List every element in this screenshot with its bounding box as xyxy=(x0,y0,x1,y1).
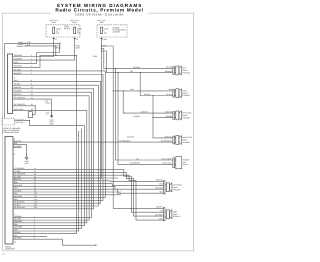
wire amp A1 to sp6 w2 xyxy=(13,170,164,213)
svg-text:1: 1 xyxy=(34,215,35,218)
svg-text:WHT: WHT xyxy=(159,217,163,220)
svg-text:C13: C13 xyxy=(34,201,37,204)
svg-text:BRN/WHT: BRN/WHT xyxy=(14,220,23,223)
svg-text:GRY/ORG: GRY/ORG xyxy=(155,187,163,190)
power distribution center (dashed box) xyxy=(97,25,127,37)
wire splice to LF speaker (-) xyxy=(102,51,173,72)
wire radio pin15 to noise capacitor xyxy=(13,106,35,115)
wire splice to LF speaker (+) xyxy=(102,49,173,69)
wire RF speaker (+) branch xyxy=(113,90,173,92)
svg-text:S204: S204 xyxy=(93,55,97,58)
title background patch xyxy=(51,11,148,16)
svg-text:LEFT: LEFT xyxy=(182,67,186,70)
svg-text:C12: C12 xyxy=(34,198,37,201)
svg-text:BLOCK: BLOCK xyxy=(64,27,71,30)
power antenna connector xyxy=(173,158,175,168)
speaker RIGHT REAR (4-wire) xyxy=(164,208,166,221)
border frame xyxy=(3,13,194,251)
svg-text:WHT: WHT xyxy=(76,47,81,50)
svg-text:7: 7 xyxy=(34,231,35,234)
svg-text:VIO/BLK: VIO/BLK xyxy=(14,231,22,234)
wire radio to amp cascade 2 xyxy=(13,75,103,201)
svg-text:15A: 15A xyxy=(104,32,108,35)
wire bus right from fuse6 xyxy=(102,46,164,208)
splice S5 xyxy=(115,68,116,69)
splice S11 xyxy=(113,90,114,91)
wire amp row3 stub xyxy=(13,146,22,148)
svg-text:LEFT REAR: LEFT REAR xyxy=(182,112,192,115)
connector tick C2 xyxy=(74,38,76,40)
wire equalizer to amp xyxy=(13,120,85,225)
svg-text:S201: S201 xyxy=(46,112,50,115)
svg-text:ai2: ai2 xyxy=(2,252,6,255)
splice S9 xyxy=(152,117,153,118)
svg-text:2: 2 xyxy=(34,218,35,221)
wire LR speaker (-) branch xyxy=(153,96,173,118)
svg-text:2: 2 xyxy=(14,77,15,80)
svg-text:WHT/VIO: WHT/VIO xyxy=(127,135,135,138)
wire radio to amp cascade 8 xyxy=(13,111,87,223)
wire amp B6 corner part xyxy=(78,130,80,132)
wire amp A7 to sp5 w3 xyxy=(13,186,164,189)
svg-text:RIGHT REAR: RIGHT REAR xyxy=(182,136,193,139)
svg-text:4: 4 xyxy=(34,223,35,226)
fuse F6 xyxy=(100,27,102,33)
svg-text:HOT AT ALL: HOT AT ALL xyxy=(49,19,58,22)
wire fuse14 to radio C1 pin1 xyxy=(13,37,54,57)
wire amp A8 to sp5 w4 xyxy=(13,189,164,193)
svg-text:DK BLU/RED: DK BLU/RED xyxy=(14,201,25,204)
wire amp B8 stub xyxy=(13,235,47,237)
amplifier box xyxy=(5,137,13,244)
svg-text:DK BLU: DK BLU xyxy=(166,93,173,96)
ground arrow G201 xyxy=(50,115,53,118)
svg-text:VIO/BRN: VIO/BRN xyxy=(133,115,141,118)
svg-text:HOT AT ALL: HOT AT ALL xyxy=(70,19,79,22)
splice on fuse6 wire xyxy=(101,45,102,46)
svg-text:C2: C2 xyxy=(76,38,78,41)
wire amp A2 to sp6 w3 xyxy=(13,172,164,216)
svg-text:C1: C1 xyxy=(55,38,57,41)
svg-text:4: 4 xyxy=(31,65,32,68)
svg-text:ORG/BLK: ORG/BLK xyxy=(14,215,23,218)
svg-text:A: A xyxy=(14,153,16,156)
splice S6 xyxy=(140,72,141,73)
wire amp A5 to sp5 w1 xyxy=(13,180,164,183)
speaker LEFT REAR (4-wire) xyxy=(164,181,166,194)
svg-text:BLK/LT BLU: BLK/LT BLU xyxy=(163,162,173,165)
svg-text:3 PREMIUM SOUND: 3 PREMIUM SOUND xyxy=(2,131,19,134)
wire amp B9 to splice xyxy=(13,239,96,245)
fuse F14 xyxy=(53,27,55,33)
svg-text:BRN/YEL: BRN/YEL xyxy=(141,110,148,113)
svg-text:BLK/WHT: BLK/WHT xyxy=(14,145,23,148)
svg-text:DK GRN/RED: DK GRN/RED xyxy=(130,162,141,165)
svg-text:1: 1 xyxy=(31,54,32,57)
svg-text:DK GRN: DK GRN xyxy=(134,66,141,69)
svg-text:AMPLIFIER: AMPLIFIER xyxy=(5,248,15,251)
svg-text:BRN/RED: BRN/RED xyxy=(165,70,173,73)
node dot A xyxy=(25,43,26,44)
wire radio to amp cascade 4 xyxy=(13,85,98,206)
svg-text:DK GRN: DK GRN xyxy=(166,66,173,69)
ground G200 xyxy=(25,156,29,158)
splice to amp ground wire xyxy=(55,55,56,56)
svg-text:DK BLU: DK BLU xyxy=(14,203,21,206)
wire amp ground row xyxy=(13,145,27,158)
svg-text:C100: C100 xyxy=(103,38,107,41)
svg-text:DK BLU: DK BLU xyxy=(144,93,151,96)
speaker RIGHT FRONT DOOR xyxy=(173,89,175,97)
wire amp A10 stub xyxy=(13,194,121,196)
wire radio to amp cascade 7 xyxy=(13,96,89,220)
svg-text:DK BLU/ORG: DK BLU/ORG xyxy=(161,157,172,160)
svg-text:C11: C11 xyxy=(34,195,37,198)
speaker RIGHT REAR DOOR xyxy=(173,136,175,144)
svg-text:RIGHT: RIGHT xyxy=(173,210,178,213)
svg-text:5: 5 xyxy=(34,226,35,229)
svg-text:LEFT REAR: LEFT REAR xyxy=(173,183,183,186)
wire fuse6 down to amp xyxy=(13,37,102,178)
svg-text:6: 6 xyxy=(34,228,35,231)
wire amp row1 to RR speaker xyxy=(13,141,173,143)
splice dot on pin15 xyxy=(35,105,36,106)
svg-text:DK BLU/ORG: DK BLU/ORG xyxy=(14,206,25,209)
connector tick C100 xyxy=(100,38,102,40)
svg-text:3: 3 xyxy=(31,61,32,64)
node dot D xyxy=(29,120,30,121)
wire amp A6 to sp5 w2 xyxy=(13,184,164,186)
wire long vertical to amp row xyxy=(13,55,77,233)
svg-text:G201: G201 xyxy=(50,119,54,122)
svg-text:BRN/YEL: BRN/YEL xyxy=(165,110,172,113)
connector C inline (dashed) xyxy=(60,42,62,50)
wire amp A4 stub xyxy=(13,177,118,179)
wire amp A9 stub xyxy=(13,191,121,193)
wire radio to amp cascade 6 xyxy=(13,92,91,217)
svg-text:C14: C14 xyxy=(34,203,37,206)
splice ground xyxy=(26,154,27,155)
splice S201 xyxy=(51,113,52,114)
svg-text:GRY/WHT: GRY/WHT xyxy=(14,226,23,229)
svg-text:VIO/BRN: VIO/BRN xyxy=(166,115,174,118)
wire amp B5 corner xyxy=(13,129,81,229)
svg-text:ORG: ORG xyxy=(14,61,19,64)
splice S10 xyxy=(95,245,96,246)
svg-text:BRN/YEL: BRN/YEL xyxy=(156,179,163,182)
speaker LEFT REAR DOOR xyxy=(173,112,175,120)
splice S7 xyxy=(117,72,118,73)
svg-text:WHT/RED: WHT/RED xyxy=(14,195,23,198)
svg-text:DK GRN: DK GRN xyxy=(14,218,22,221)
svg-text:BLK/: BLK/ xyxy=(45,100,49,103)
wire amp B6 corner xyxy=(13,131,79,231)
svg-text:3: 3 xyxy=(34,220,35,223)
connector tick C1 xyxy=(53,38,55,40)
svg-text:2: 2 xyxy=(31,58,32,61)
fuse block (dashed box) xyxy=(46,25,80,37)
radio box (upper) xyxy=(8,54,13,113)
svg-text:WHT/VIO: WHT/VIO xyxy=(165,135,173,138)
svg-text:CENTER: CENTER xyxy=(113,31,121,34)
splice S204b xyxy=(101,50,102,51)
speaker LEFT FRONT DOOR xyxy=(173,67,175,75)
node dot B xyxy=(25,45,26,46)
svg-text:RED/WHT: RED/WHT xyxy=(14,54,23,57)
svg-text:WHT/RED: WHT/RED xyxy=(155,213,163,216)
wire radio pin14 to ground xyxy=(13,99,52,115)
wire fuse13 to radio C1 pin2 xyxy=(13,37,75,60)
fuse F13 xyxy=(74,27,76,33)
wire left drop xyxy=(5,43,26,118)
svg-text:VIO/WHT: VIO/WHT xyxy=(156,206,163,209)
svg-text:RIGHT: RIGHT xyxy=(182,89,187,92)
svg-text:10: 10 xyxy=(14,241,16,244)
wire antenna feed 2 xyxy=(118,72,173,164)
wire antenna feed 1 xyxy=(115,69,172,160)
noise capacitor box xyxy=(28,112,32,118)
svg-text:HOT AT ALL: HOT AT ALL xyxy=(97,19,106,22)
svg-text:DIMMER: DIMMER xyxy=(16,45,24,48)
svg-text:PNK/WHT: PNK/WHT xyxy=(14,58,23,61)
wire radio to amp cascade 3 xyxy=(13,82,101,204)
wire radio to amp cascade 5 xyxy=(13,89,94,209)
svg-text:C15: C15 xyxy=(34,206,37,209)
equalizer dashed box xyxy=(2,118,14,125)
wire RF speaker (-) branch xyxy=(140,72,173,95)
wire panel A loop xyxy=(13,43,60,63)
wire radio to amp cascade 1 xyxy=(13,71,105,198)
splice S8 xyxy=(123,90,124,91)
wire panel B loop xyxy=(13,46,56,67)
svg-text:BLK/ORG: BLK/ORG xyxy=(14,65,22,68)
splice S204a xyxy=(101,48,102,49)
wire LR speaker (+) branch xyxy=(123,91,173,113)
wire RR speaker (+) branch xyxy=(153,118,173,138)
svg-text:(W/O EQ): (W/O EQ) xyxy=(16,121,24,124)
svg-text:1993 Chrysler Concorde: 1993 Chrysler Concorde xyxy=(75,12,124,16)
wire amp A3 to sp6 w4 xyxy=(13,175,164,220)
svg-text:10A: 10A xyxy=(56,32,60,35)
splice S12 xyxy=(152,95,153,96)
svg-text:POWER: POWER xyxy=(183,158,190,161)
